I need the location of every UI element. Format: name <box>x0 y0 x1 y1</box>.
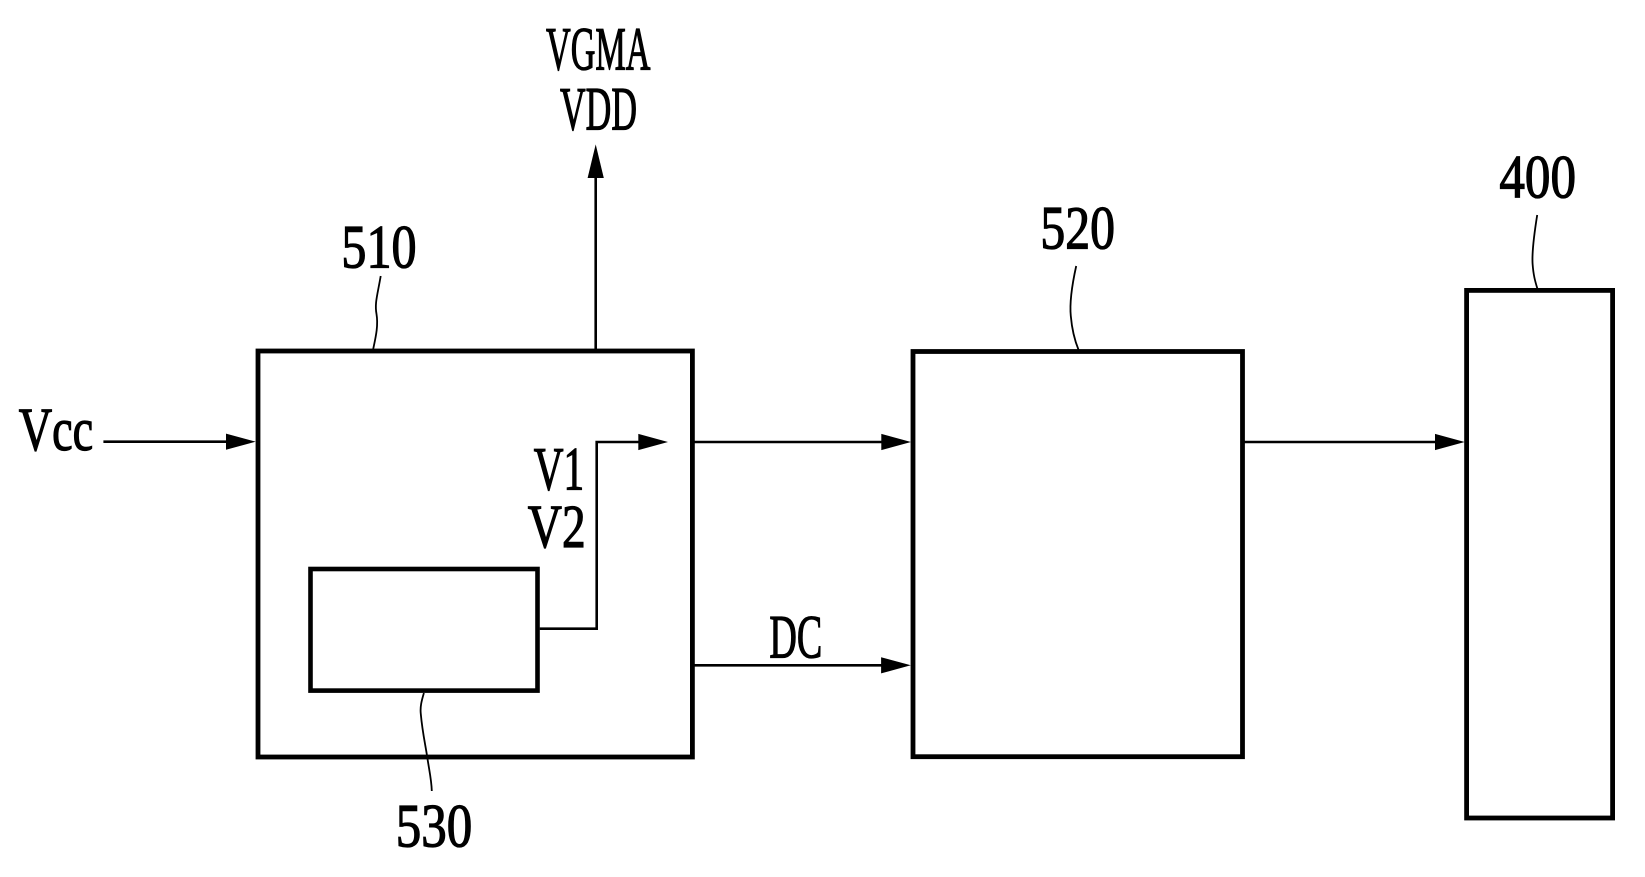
block 520 <box>913 352 1243 757</box>
svg-text:510: 510 <box>341 214 416 281</box>
arrowhead VGMA/VDD up <box>588 144 604 178</box>
svg-text:VGMA: VGMA <box>546 16 651 83</box>
arrowhead internal V1/V2 <box>638 434 668 450</box>
arrowhead DC into 520 <box>881 657 911 673</box>
svg-text:V2: V2 <box>528 494 586 561</box>
wire 520 to 400 <box>1242 441 1437 444</box>
arrowhead Vcc into 510 <box>226 434 256 450</box>
svg-text:Vcc: Vcc <box>19 397 93 464</box>
svg-text:DC: DC <box>769 605 822 672</box>
block 510 (power generator box) <box>258 351 692 757</box>
wire Vcc input <box>103 440 228 443</box>
wire from 530 up to internal output arrow <box>540 442 639 629</box>
leader squiggle for 530 <box>421 693 432 791</box>
wire DC 510 to 520 <box>692 664 883 667</box>
leader squiggle for 400 <box>1532 215 1537 289</box>
wire 510 to 520 (top) <box>692 441 883 444</box>
svg-text:520: 520 <box>1040 195 1115 262</box>
svg-text:VDD: VDD <box>560 76 637 143</box>
svg-text:400: 400 <box>1499 144 1576 211</box>
block 530 (inner reference voltage box) <box>311 569 538 691</box>
arrowhead into 520 (top) <box>881 434 911 450</box>
block 400 (display panel) <box>1467 290 1613 818</box>
svg-text:530: 530 <box>396 794 473 861</box>
leader squiggle for 510 <box>373 276 381 349</box>
leader squiggle for 520 <box>1070 266 1078 350</box>
arrowhead into 400 <box>1435 434 1465 450</box>
wire VGMA/VDD output up from 510 <box>594 176 597 352</box>
